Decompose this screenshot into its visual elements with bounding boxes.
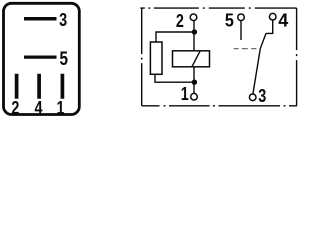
svg-text:2: 2 (176, 11, 184, 31)
svg-text:3: 3 (258, 86, 266, 106)
svg-text:2: 2 (11, 98, 19, 118)
svg-text:1: 1 (57, 98, 65, 118)
svg-text:1: 1 (181, 84, 189, 104)
svg-text:4: 4 (35, 98, 43, 118)
svg-text:4: 4 (278, 10, 288, 30)
svg-text:5: 5 (225, 11, 234, 31)
svg-text:5: 5 (60, 48, 69, 70)
svg-text:3: 3 (59, 10, 67, 30)
